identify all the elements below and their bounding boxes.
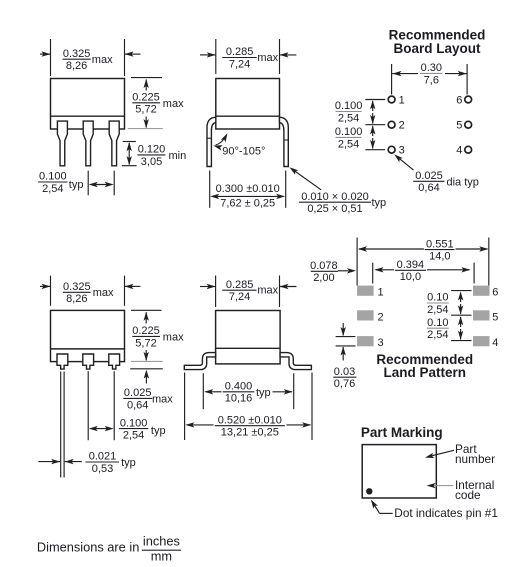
svg-text:8,26: 8,26 xyxy=(66,293,87,305)
svg-text:0,76: 0,76 xyxy=(334,378,355,390)
svg-text:min: min xyxy=(169,150,187,162)
svg-text:0,64: 0,64 xyxy=(127,399,148,411)
svg-text:0.225: 0.225 xyxy=(132,92,160,104)
svg-text:max: max xyxy=(92,54,113,66)
svg-text:10,0: 10,0 xyxy=(400,271,421,283)
svg-text:0.551: 0.551 xyxy=(426,238,454,250)
svg-text:code: code xyxy=(455,488,481,502)
svg-text:max: max xyxy=(257,52,278,64)
svg-text:4: 4 xyxy=(456,145,462,157)
svg-text:0.100: 0.100 xyxy=(39,171,67,183)
svg-text:typ: typ xyxy=(151,425,166,437)
svg-text:5: 5 xyxy=(456,120,462,132)
svg-text:1: 1 xyxy=(378,287,384,299)
svg-text:3: 3 xyxy=(378,337,384,349)
svg-text:6: 6 xyxy=(456,95,462,107)
svg-text:13,21 ±0,25: 13,21 ±0,25 xyxy=(221,427,279,439)
svg-text:Dimensions are in: Dimensions are in xyxy=(37,539,139,554)
svg-text:0.025: 0.025 xyxy=(415,170,443,182)
svg-text:0,53: 0,53 xyxy=(92,463,113,475)
svg-text:5,72: 5,72 xyxy=(135,104,156,116)
svg-text:0,64: 0,64 xyxy=(418,182,439,194)
svg-text:6: 6 xyxy=(492,287,498,299)
svg-text:0.30: 0.30 xyxy=(421,62,442,74)
svg-text:0.325: 0.325 xyxy=(63,281,91,293)
svg-text:7,6: 7,6 xyxy=(424,74,439,86)
svg-text:0.325: 0.325 xyxy=(63,48,91,60)
svg-text:8,26: 8,26 xyxy=(66,60,87,72)
svg-text:2,54: 2,54 xyxy=(338,138,359,150)
svg-text:0.100: 0.100 xyxy=(335,126,363,138)
svg-text:Land Pattern: Land Pattern xyxy=(384,365,467,380)
svg-text:max: max xyxy=(152,393,173,405)
svg-text:dia typ: dia typ xyxy=(447,176,479,188)
svg-text:5,72: 5,72 xyxy=(135,337,156,349)
svg-text:0.400: 0.400 xyxy=(225,381,253,393)
svg-text:0.10: 0.10 xyxy=(427,292,448,304)
svg-text:typ: typ xyxy=(256,387,271,399)
svg-text:max: max xyxy=(93,287,114,299)
svg-text:14,0: 14,0 xyxy=(429,251,450,263)
svg-text:1: 1 xyxy=(399,95,405,107)
svg-text:0.394: 0.394 xyxy=(397,259,425,271)
svg-text:number: number xyxy=(455,452,495,466)
svg-text:max: max xyxy=(163,98,184,110)
svg-text:0.120: 0.120 xyxy=(138,144,166,156)
svg-text:2,00: 2,00 xyxy=(313,272,334,284)
svg-text:2,54: 2,54 xyxy=(338,112,359,124)
svg-text:0.10: 0.10 xyxy=(427,317,448,329)
svg-text:2: 2 xyxy=(399,120,405,132)
svg-text:2,54: 2,54 xyxy=(427,329,448,341)
svg-text:7,24: 7,24 xyxy=(229,58,250,70)
svg-text:0.100: 0.100 xyxy=(335,100,363,112)
svg-text:typ: typ xyxy=(372,197,387,209)
svg-text:0.010 × 0.020: 0.010 × 0.020 xyxy=(301,191,369,203)
svg-text:2,54: 2,54 xyxy=(42,183,63,195)
svg-text:4: 4 xyxy=(492,337,498,349)
svg-text:7,62 ± 0,25: 7,62 ± 0,25 xyxy=(220,198,275,210)
svg-text:2,54: 2,54 xyxy=(123,430,144,442)
svg-text:typ: typ xyxy=(69,179,84,191)
svg-text:0.021: 0.021 xyxy=(89,451,117,463)
svg-text:3,05: 3,05 xyxy=(141,156,162,168)
svg-text:3: 3 xyxy=(399,145,405,157)
svg-text:2: 2 xyxy=(378,311,384,323)
svg-text:0.078: 0.078 xyxy=(310,260,338,272)
svg-text:0.285: 0.285 xyxy=(226,46,254,58)
svg-text:Part Marking: Part Marking xyxy=(361,425,443,440)
svg-text:2,54: 2,54 xyxy=(427,304,448,316)
svg-text:max: max xyxy=(163,331,184,343)
svg-text:Board Layout: Board Layout xyxy=(393,41,481,56)
svg-text:0.285: 0.285 xyxy=(226,279,254,291)
svg-text:0.03: 0.03 xyxy=(334,366,355,378)
svg-text:mm: mm xyxy=(151,548,172,563)
svg-text:7,24: 7,24 xyxy=(229,291,250,303)
svg-text:typ: typ xyxy=(121,457,136,469)
svg-text:Dot indicates pin #1: Dot indicates pin #1 xyxy=(394,506,498,520)
svg-text:0,25 × 0,51: 0,25 × 0,51 xyxy=(307,203,362,215)
svg-text:0.520 ±0.010: 0.520 ±0.010 xyxy=(218,414,282,426)
svg-text:0.300 ±0.010: 0.300 ±0.010 xyxy=(216,183,280,195)
svg-text:90°-105°: 90°-105° xyxy=(222,146,265,158)
svg-text:10,16: 10,16 xyxy=(225,393,253,405)
svg-text:0.100: 0.100 xyxy=(120,417,148,429)
svg-text:5: 5 xyxy=(492,311,498,323)
svg-text:max: max xyxy=(257,285,278,297)
svg-text:0.025: 0.025 xyxy=(124,387,152,399)
svg-text:0.225: 0.225 xyxy=(132,325,160,337)
svg-text:inches: inches xyxy=(143,533,180,548)
